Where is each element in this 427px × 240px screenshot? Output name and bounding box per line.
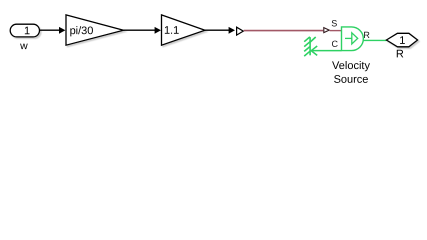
arrowhead at gain1 bbox=[59, 27, 65, 34]
conserving line R to port bbox=[363, 39, 387, 41]
svg-text:R: R bbox=[363, 30, 370, 40]
inport block 1 (stadium) bbox=[10, 24, 39, 37]
svg-text:pi/30: pi/30 bbox=[70, 25, 94, 37]
source icon arrow line bbox=[345, 37, 352, 39]
svg-text:w: w bbox=[19, 40, 28, 52]
PS open arrowhead at S port bbox=[324, 28, 329, 33]
arrowhead at converter bbox=[229, 27, 235, 34]
mechanical translational reference (hatch ground) bbox=[304, 37, 316, 56]
svg-text:1: 1 bbox=[24, 25, 30, 37]
svg-text:R: R bbox=[396, 48, 404, 60]
gain block pi/30 bbox=[66, 15, 124, 45]
gain block 1.1 bbox=[162, 15, 206, 45]
source icon arrow head bbox=[352, 33, 358, 44]
svg-text:C: C bbox=[332, 39, 339, 49]
PS stub into S port bbox=[330, 30, 342, 32]
physical signal line (red) bbox=[244, 30, 323, 32]
svg-text:Source: Source bbox=[334, 74, 369, 86]
wire inport to gain1 bbox=[40, 29, 60, 31]
svg-text:S: S bbox=[331, 18, 337, 28]
wire gain2 to converter bbox=[205, 29, 229, 31]
open arrow toward reference bbox=[311, 46, 317, 55]
arrowhead at gain2 bbox=[155, 27, 161, 34]
velocity source block body bbox=[342, 27, 364, 51]
conserving line C to reference bbox=[311, 50, 342, 52]
svg-text:Velocity: Velocity bbox=[332, 60, 370, 72]
svg-text:1: 1 bbox=[399, 35, 405, 47]
converter hollow triangle bbox=[237, 27, 244, 35]
svg-text:1.1: 1.1 bbox=[164, 25, 179, 37]
wire gain1 to gain2 bbox=[124, 29, 156, 31]
connection port hexagon bbox=[386, 33, 417, 47]
